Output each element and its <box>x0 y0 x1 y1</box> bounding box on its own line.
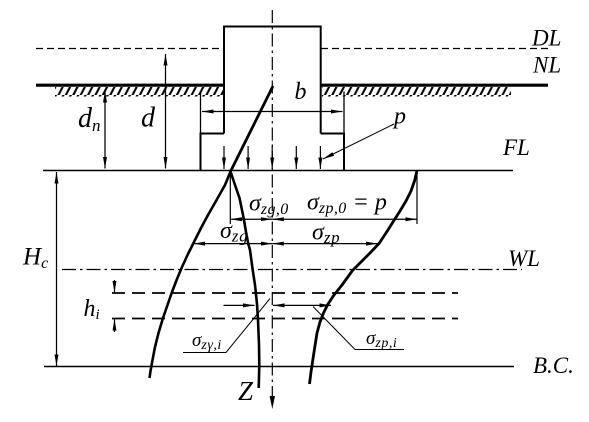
column outline <box>224 27 321 134</box>
svg-text:B.C.: B.C. <box>533 353 574 378</box>
sigma_zg dimension arrow <box>194 243 273 245</box>
svg-text:Z: Z <box>238 376 254 406</box>
load arrow 5 <box>319 146 321 169</box>
DL line (dashed design level) <box>36 48 224 50</box>
svg-text:d: d <box>141 103 156 134</box>
h_i dimension arrows <box>114 280 116 293</box>
sigma_zp,i arrow <box>273 304 331 306</box>
ground hatching left <box>55 87 223 97</box>
WL line (water level dash-dot) <box>62 269 522 271</box>
extension line below sigma_zp start <box>416 172 418 224</box>
svg-text:b: b <box>295 79 307 105</box>
b dimension arrow <box>202 111 343 113</box>
svg-text:FL: FL <box>502 135 530 160</box>
sigma_zgamma,i leader and underline <box>183 299 270 353</box>
FL line (foundation level) <box>43 170 513 172</box>
centerline Z axis dash-dot <box>271 10 273 398</box>
svg-text:DL: DL <box>531 26 561 51</box>
svg-text:NL: NL <box>532 53 561 78</box>
sigma_zgamma,i arrow <box>224 304 255 306</box>
H_c dimension arrow <box>56 172 58 260</box>
NL line (thick natural ground level) <box>36 84 224 87</box>
svg-text:WL: WL <box>508 246 540 271</box>
d_n dimension arrow <box>104 91 106 130</box>
load arrow 1 <box>223 146 225 169</box>
svg-text:p: p <box>392 104 406 130</box>
ground hatching right <box>322 87 511 97</box>
layer boundary dashed upper <box>112 292 458 294</box>
sigma_zp dimension arrow <box>272 243 377 245</box>
sigma_zp,0 dimension arrow <box>272 218 417 220</box>
Z axis arrowhead <box>270 396 275 409</box>
d dimension arrow <box>165 54 167 110</box>
p leader arrow <box>323 124 394 159</box>
sigma_zg curve (self-weight stress) <box>150 172 231 379</box>
sigma_zgamma curve (excavated soil stress) <box>231 172 260 389</box>
load arrow 2 <box>247 146 249 169</box>
footing step outline <box>201 134 345 171</box>
sigma_zg diagonal above FL <box>231 86 274 172</box>
sigma_zp,i leader and underline <box>313 307 404 350</box>
load arrow 4 <box>295 146 297 169</box>
layer boundary dashed lower <box>112 318 458 320</box>
sigma_zp curve (additional stress) <box>310 171 418 385</box>
extension line right (b dimension) <box>343 92 345 134</box>
B.C. line (bottom of compressible stratum) <box>44 366 514 368</box>
extension line below cusp <box>229 172 231 224</box>
sigma_zg,0 dimension arrow <box>231 218 273 220</box>
load arrow 3 <box>271 146 273 169</box>
extension line left (b dimension) <box>200 92 202 134</box>
